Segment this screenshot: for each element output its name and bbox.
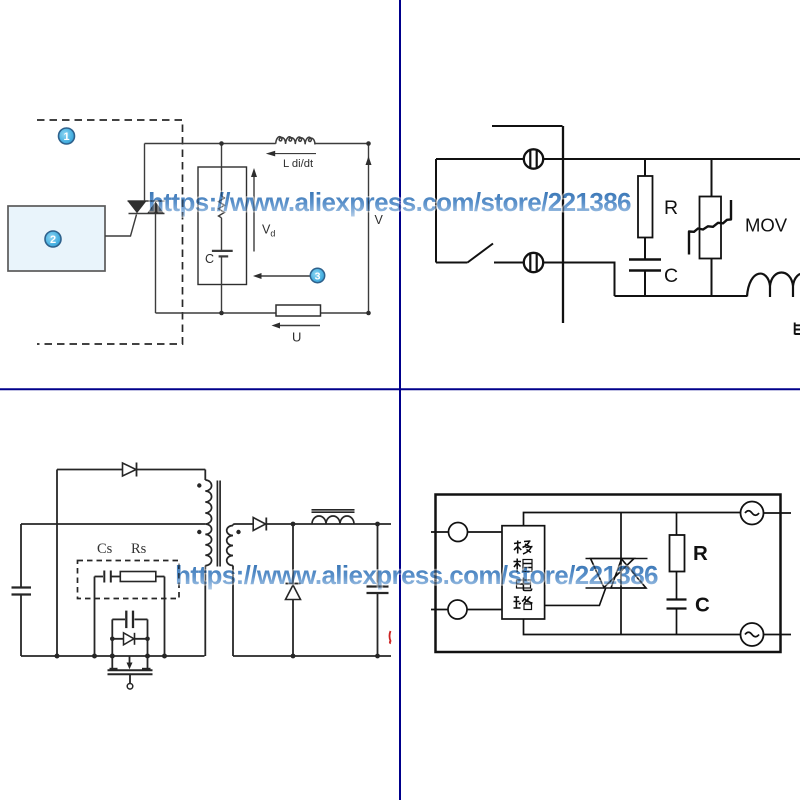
svg-text:https://www.aliexpress.com/sto: https://www.aliexpress.com/store/221386 — [148, 187, 631, 217]
svg-text:Vd: Vd — [262, 223, 275, 239]
svg-text:R: R — [693, 542, 708, 565]
svg-text:R: R — [664, 197, 678, 219]
svg-text:2: 2 — [50, 234, 56, 246]
svg-text:U: U — [292, 330, 301, 345]
svg-text:MOV: MOV — [745, 215, 788, 236]
svg-text:C: C — [695, 594, 710, 617]
svg-text:L di/dt: L di/dt — [283, 158, 314, 170]
svg-text:3: 3 — [315, 271, 321, 283]
svg-text:https://www.aliexpress.com/sto: https://www.aliexpress.com/store/221386 — [175, 560, 658, 590]
svg-text:C: C — [205, 252, 214, 266]
svg-text:Cs: Cs — [97, 541, 113, 557]
svg-text:C: C — [664, 265, 678, 287]
svg-text:Rs: Rs — [131, 541, 147, 557]
svg-text:1: 1 — [63, 131, 69, 143]
